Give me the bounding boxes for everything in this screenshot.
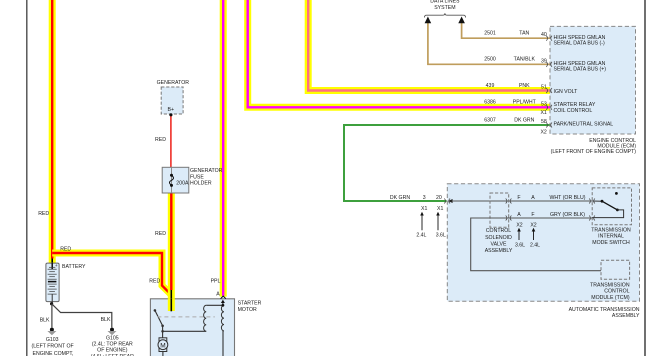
svg-text:2.4L: 2.4L (416, 233, 426, 239)
label DK GRN 3 20 (390, 195, 442, 201)
brace data lines system (424, 13, 465, 17)
starter motor M (158, 331, 168, 356)
svg-text:MODE SWITCH: MODE SWITCH (592, 240, 630, 246)
label ENGINE CONTROL MODULE (ECM) (551, 138, 637, 155)
svg-text:X2: X2 (516, 222, 522, 228)
svg-text:MOTOR: MOTOR (238, 307, 257, 313)
svg-text:20: 20 (436, 195, 442, 201)
solenoid row2 exit connector A F (506, 212, 535, 221)
ground G103 (32, 328, 74, 356)
generator G1 (157, 80, 190, 116)
label wire 6307 DK GRN pin 58 X2 (484, 117, 547, 135)
svg-text:2500: 2500 (484, 57, 496, 63)
label RED (battery horizontal) (60, 246, 71, 252)
ECM box (550, 26, 636, 134)
starter coil top bus (206, 304, 224, 307)
svg-text:SYSTEM: SYSTEM (434, 5, 455, 11)
svg-text:39: 39 (541, 58, 547, 64)
svg-text:BLK: BLK (40, 317, 50, 323)
svg-text:TRANSMISSION: TRANSMISSION (590, 282, 630, 288)
label wire 2500 TAN/BLK pin 39 (484, 57, 547, 65)
svg-text:+: + (55, 264, 58, 269)
generator B+ wire (thin red) (170, 115, 172, 168)
svg-text:X2: X2 (530, 222, 536, 228)
svg-text:DK GRN: DK GRN (390, 195, 410, 201)
automatic transmission assembly box (447, 184, 639, 301)
label AUTOMATIC TRANSMISSION ASSEMBLY (569, 307, 640, 319)
label A (starter) (216, 291, 220, 297)
ECM pin 39 connector (546, 62, 552, 67)
svg-text:WHT (OR BLU): WHT (OR BLU) (550, 195, 586, 201)
svg-text:200A: 200A (176, 180, 189, 186)
svg-text:X1: X1 (421, 206, 427, 212)
starter hold-in coil ground wire (222, 331, 224, 356)
label TRANSMISSION CONTROL MODULE (TCM) (590, 282, 630, 300)
svg-text:CONTROL: CONTROL (604, 289, 629, 295)
svg-text:M: M (160, 342, 165, 349)
starter motor box (150, 299, 234, 356)
svg-text:ASSEMBLY: ASSEMBLY (485, 248, 513, 254)
svg-text:A: A (517, 212, 521, 218)
svg-text:(LEFT FRONT OF: (LEFT FRONT OF (32, 343, 74, 349)
svg-text:SOLENOID: SOLENOID (485, 235, 512, 241)
svg-text:RED: RED (38, 211, 49, 217)
svg-text:G103: G103 (46, 337, 59, 343)
svg-text:AUTOMATIC TRANSMISSION: AUTOMATIC TRANSMISSION (569, 307, 640, 313)
svg-text:3: 3 (423, 195, 426, 201)
wire BLK to G105 (52, 304, 112, 328)
svg-text:TAN/BLK: TAN/BLK (514, 57, 536, 63)
svg-text:FUSE: FUSE (190, 174, 204, 180)
svg-text:RED: RED (155, 137, 166, 143)
svg-text:IGN VOLT: IGN VOLT (554, 89, 579, 95)
label DATA LINES SYSTEM (430, 0, 460, 11)
label RED (left vertical) (38, 211, 49, 217)
svg-text:SERIAL DATA BUS (-): SERIAL DATA BUS (-) (554, 41, 605, 47)
svg-text:PNK: PNK (519, 83, 530, 89)
svg-text:(LEFT FRONT OF ENGINE COMPT): (LEFT FRONT OF ENGINE COMPT) (551, 149, 637, 155)
starter solenoid switch (154, 309, 164, 333)
X1 arrow 2.4L (416, 212, 426, 239)
svg-text:COIL CONTROL: COIL CONTROL (554, 108, 593, 114)
svg-text:F: F (531, 212, 534, 218)
label X1 X1 (421, 206, 443, 212)
label X2 X2 (516, 222, 536, 228)
svg-text:ENGINE COMPT,: ENGINE COMPT, (33, 351, 74, 356)
X2 arrow 3.6L (515, 228, 525, 249)
ECM pin 51 connector (546, 88, 552, 93)
label wire 2501 TAN pin 40 (484, 31, 547, 39)
label BLK (left) (40, 317, 50, 323)
wire RED generator fuse to starter (vertical, highlighted) (168, 193, 175, 311)
wire park/neutral row 1 (internal) (452, 200, 592, 202)
wire TAN/BLK 2500 serial data (428, 23, 550, 65)
svg-text:6386: 6386 (484, 100, 496, 106)
label CONTROL SOLENOID VALVE ASSEMBLY (485, 228, 513, 254)
svg-text:INTERNAL: INTERNAL (598, 234, 624, 240)
control solenoid valve assembly box (490, 193, 509, 227)
svg-text:A: A (531, 195, 535, 201)
svg-text:BATTERY: BATTERY (62, 264, 86, 270)
wire DK GRN park/neutral signal (344, 125, 550, 201)
svg-text:SERIAL DATA BUS (+): SERIAL DATA BUS (+) (554, 67, 607, 73)
label PPL (211, 279, 221, 285)
generator fuse holder 200A (162, 167, 222, 193)
label wire 6386 PPL/WHT pin 53 X1 (484, 100, 547, 116)
starter A terminal pin arrow (221, 296, 226, 305)
ECM pin 40 connector (546, 36, 552, 41)
svg-text:TRANSMISSION: TRANSMISSION (591, 228, 631, 234)
label TRANSMISSION INTERNAL MODE SWITCH (591, 228, 631, 246)
svg-text:TAN: TAN (519, 31, 529, 37)
svg-text:A: A (216, 291, 220, 297)
wire PNK ign volt (highlighted) (308, 0, 550, 91)
starter coil bottom wire to switch (163, 330, 207, 332)
label RED (battery branch bend) (149, 279, 160, 285)
svg-text:ASSEMBLY: ASSEMBLY (612, 313, 640, 319)
svg-text:51: 51 (541, 85, 547, 91)
svg-text:3.6L: 3.6L (436, 233, 446, 239)
mode switch internals (589, 192, 623, 221)
battery (46, 263, 86, 303)
svg-text:RED: RED (60, 246, 71, 252)
svg-text:40: 40 (541, 32, 547, 38)
svg-text:PPL/WHT: PPL/WHT (513, 100, 537, 106)
svg-text:X1: X1 (437, 206, 443, 212)
svg-text:CONTROL: CONTROL (486, 228, 511, 234)
wire PPL starter solenoid feed (vertical, highlighted) (220, 0, 227, 297)
wire row 2 (internal, to TCM branch) (471, 218, 601, 271)
off-page arrow to data lines (right) (458, 17, 465, 24)
svg-text:439: 439 (486, 83, 495, 89)
svg-text:GRY (OR BLK): GRY (OR BLK) (550, 212, 585, 218)
left page border (26, 0, 28, 356)
svg-text:B+: B+ (168, 107, 175, 113)
svg-text:53: 53 (541, 101, 547, 107)
svg-text:(2.4L: TOP REAR: (2.4L: TOP REAR (92, 341, 133, 347)
svg-text:DK GRN: DK GRN (514, 117, 534, 123)
label GRY (OR BLK) (550, 212, 585, 218)
svg-text:OF ENGINE): OF ENGINE) (97, 348, 128, 354)
svg-text:VALVE: VALVE (491, 241, 507, 247)
svg-text:X2: X2 (540, 130, 546, 136)
svg-text:F: F (517, 195, 520, 201)
wire RED battery to junction (horizontal branch) (52, 253, 171, 295)
transmission internal mode switch box (592, 188, 631, 225)
label WHT (OR BLU) (550, 195, 586, 201)
TCM box (601, 260, 630, 279)
ground G105 (91, 328, 134, 356)
svg-text:6307: 6307 (484, 117, 496, 123)
solenoid row1 exit connector F A (506, 195, 536, 204)
label RED (generator wire) (155, 137, 166, 143)
X2 arrow 2.4L (530, 228, 540, 249)
starter solenoid hold-in coil (221, 305, 224, 331)
svg-text:X1: X1 (540, 110, 546, 116)
X1 arrow 3.6L (436, 212, 446, 239)
battery negative junction (50, 302, 53, 305)
svg-text:HOLDER: HOLDER (190, 181, 212, 187)
wire BLK to G103 (51, 304, 53, 328)
label RED (fuse to starter wire) (155, 231, 166, 237)
off-page arrow to data lines (left) (425, 17, 432, 24)
svg-text:MODULE (TCM): MODULE (TCM) (591, 295, 630, 301)
wire RED battery feed (vertical, highlighted) (49, 0, 56, 269)
svg-text:GENERATOR: GENERATOR (157, 80, 190, 86)
svg-text:PPL: PPL (211, 279, 221, 285)
svg-text:GENERATOR: GENERATOR (190, 168, 223, 174)
svg-text:58: 58 (541, 119, 547, 125)
label wire 439 PNK pin 51 (486, 83, 547, 91)
ECM pin function texts (554, 35, 614, 128)
wire PPL/WHT starter relay coil control (highlighted) (248, 0, 550, 107)
starter B terminal wire end (inside) (168, 298, 175, 311)
svg-text:2.4L: 2.4L (530, 242, 540, 248)
ECM pin 53 connector (546, 105, 552, 110)
svg-text:STARTER: STARTER (238, 301, 262, 307)
starter linkage dashed line (157, 316, 214, 318)
label BLK (right) (101, 317, 111, 323)
right page border (644, 0, 646, 356)
ECM pin 58 connector (546, 123, 552, 128)
svg-text:RED: RED (155, 231, 166, 237)
svg-text:2501: 2501 (484, 31, 496, 37)
label STARTER MOTOR (238, 301, 262, 313)
svg-text:3.6L: 3.6L (515, 242, 525, 248)
wire TAN 2501 serial data (462, 23, 550, 39)
transmission connector pins 3/20 (444, 199, 452, 204)
starter solenoid pull-in coil (204, 305, 207, 331)
svg-text:RED: RED (149, 279, 160, 285)
svg-text:BLK: BLK (101, 317, 111, 323)
svg-text:PARK/NEUTRAL SIGNAL: PARK/NEUTRAL SIGNAL (554, 122, 614, 128)
